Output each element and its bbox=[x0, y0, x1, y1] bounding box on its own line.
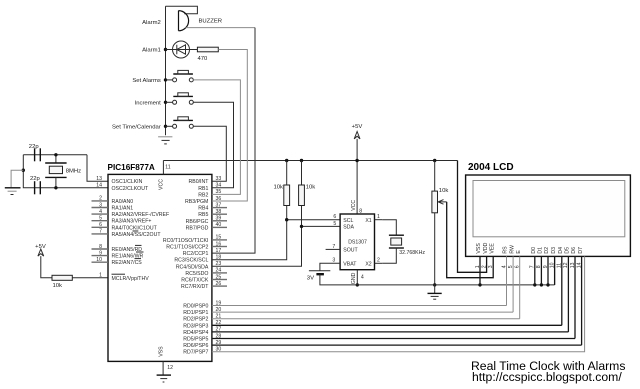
node SDA junction bbox=[300, 225, 303, 228]
svg-text:2: 2 bbox=[99, 196, 102, 202]
node VSS ground bbox=[478, 283, 481, 286]
svg-text:RC2/CCP1: RC2/CCP1 bbox=[183, 251, 209, 257]
svg-text:D1: D1 bbox=[538, 247, 544, 254]
svg-text:SOUT: SOUT bbox=[343, 248, 358, 254]
svg-text:+5V: +5V bbox=[352, 124, 363, 130]
ground (PIC VSS) bbox=[157, 374, 171, 376]
pin 38 RB5 bbox=[212, 213, 227, 215]
svg-text:3: 3 bbox=[99, 202, 102, 208]
svg-text:RB2: RB2 bbox=[198, 192, 208, 198]
pin 25 RC6/TX/CK bbox=[212, 279, 227, 281]
wire LED to RB3 bbox=[212, 50, 247, 202]
crystal X1 8MHz bbox=[55, 155, 57, 163]
svg-text:RA0/AN0: RA0/AN0 bbox=[112, 199, 134, 205]
svg-text:25: 25 bbox=[216, 274, 222, 280]
resistor R4 10k (SDA pull-up) bbox=[301, 161, 303, 186]
svg-text:40: 40 bbox=[216, 222, 222, 228]
svg-text:RC3/SCK/SCL: RC3/SCK/SCL bbox=[174, 258, 208, 264]
svg-text:RC0/T1OSO/T1CKI: RC0/T1OSO/T1CKI bbox=[163, 238, 209, 244]
svg-text:VBAT: VBAT bbox=[343, 262, 357, 268]
svg-text:16: 16 bbox=[216, 241, 222, 247]
svg-text:7: 7 bbox=[99, 229, 102, 235]
svg-text:32.768KHz: 32.768KHz bbox=[399, 250, 425, 256]
pin 16 RC1/T1OSI/CCP2 bbox=[212, 246, 227, 248]
svg-text:RD2/PSP2: RD2/PSP2 bbox=[183, 317, 208, 323]
svg-text:RD5/PSP5: RD5/PSP5 bbox=[183, 337, 208, 343]
svg-text:RC7/RX/DT: RC7/RX/DT bbox=[181, 284, 209, 290]
svg-text:7: 7 bbox=[332, 244, 335, 250]
wire VDD branch to LCD pin 2 bbox=[458, 161, 487, 273]
svg-text:VEE: VEE bbox=[489, 243, 495, 254]
svg-text:OSC1/CLKIN: OSC1/CLKIN bbox=[112, 179, 143, 185]
wire OSC top net (OSC1) bbox=[23, 154, 87, 156]
node D2 ground bbox=[546, 283, 549, 286]
svg-text:DS1307: DS1307 bbox=[348, 239, 367, 245]
ground (buttons) bbox=[158, 136, 172, 138]
svg-text:RD1/PSP1: RD1/PSP1 bbox=[183, 310, 208, 316]
ground (pot/LCD) bbox=[434, 285, 436, 293]
svg-text:8: 8 bbox=[359, 209, 362, 215]
svg-text:4: 4 bbox=[99, 209, 102, 215]
wire Set Alarms to PIC bbox=[193, 80, 240, 194]
wire SDA net bbox=[212, 226, 340, 266]
svg-text:22p: 22p bbox=[29, 144, 40, 150]
op-amp U1 PIC16F877A body bbox=[108, 174, 212, 361]
svg-text:SCL: SCL bbox=[343, 218, 353, 224]
node Alarm1 bbox=[164, 48, 167, 51]
svg-text:OSC2/CLKOUT: OSC2/CLKOUT bbox=[112, 186, 149, 192]
op-amp U2 DS1307 body bbox=[340, 214, 374, 270]
pin 24 RC5/SDO bbox=[212, 272, 227, 274]
crystal X2 32.768KHz bbox=[382, 220, 396, 236]
svg-text:RB5: RB5 bbox=[198, 212, 208, 218]
switch Set Time/Calendar bbox=[164, 125, 167, 128]
svg-text:RS: RS bbox=[503, 246, 509, 254]
svg-text:RB3/PGM: RB3/PGM bbox=[185, 199, 208, 205]
svg-text:Increment: Increment bbox=[135, 100, 162, 106]
wire Increment to PIC bbox=[193, 102, 233, 188]
switch Increment bbox=[164, 101, 167, 104]
svg-text:22p: 22p bbox=[30, 176, 41, 182]
pin 7 RA5/AN4/SS/C2OUT bbox=[92, 233, 109, 235]
led D1 bbox=[166, 49, 198, 51]
switch Set Alarms bbox=[164, 78, 167, 81]
op-amp LCD1 2004 LCD body bbox=[466, 175, 631, 256]
pin 5 RA3/AN3/VREF+ bbox=[92, 220, 109, 222]
overline CS bbox=[135, 258, 142, 260]
svg-text:26: 26 bbox=[216, 281, 222, 287]
node D1 ground bbox=[540, 283, 543, 286]
svg-text:http://ccspicc.blogspot.com/: http://ccspicc.blogspot.com/ bbox=[472, 370, 622, 384]
svg-text:8: 8 bbox=[99, 244, 102, 250]
svg-text:5: 5 bbox=[99, 216, 102, 222]
svg-text:RD3/PSP3: RD3/PSP3 bbox=[183, 323, 208, 329]
svg-text:D4: D4 bbox=[558, 247, 564, 254]
svg-text:15: 15 bbox=[216, 235, 222, 241]
resistor R2 470 bbox=[197, 47, 218, 52]
svg-text:RD6/PSP6: RD6/PSP6 bbox=[183, 343, 208, 349]
svg-text:5: 5 bbox=[333, 221, 336, 227]
svg-text:VSS: VSS bbox=[476, 243, 482, 254]
pin 8 RE0/AN5/RD bbox=[92, 248, 109, 250]
pin 1 X1 bbox=[375, 219, 383, 221]
ground (oscillator) bbox=[5, 187, 21, 189]
svg-text:RA1/AN1: RA1/AN1 bbox=[112, 206, 134, 212]
wire R1 to MCLR pin 1 bbox=[72, 277, 108, 279]
wire SCL net bbox=[212, 220, 340, 260]
overline WR bbox=[136, 251, 144, 253]
svg-text:RB0/INT: RB0/INT bbox=[189, 179, 210, 185]
wire ground net bbox=[357, 284, 554, 286]
svg-text:24: 24 bbox=[216, 268, 222, 274]
svg-text:RA4/T0CKI/C1OUT: RA4/T0CKI/C1OUT bbox=[112, 225, 158, 231]
svg-text:38: 38 bbox=[216, 209, 222, 215]
svg-text:10k: 10k bbox=[274, 185, 284, 191]
capacitor C2 22p bbox=[34, 181, 36, 194]
wire to ground tap bbox=[11, 170, 23, 187]
svg-text:RB1: RB1 bbox=[198, 186, 208, 192]
resistor RV1 10k potentiometer bbox=[434, 161, 436, 192]
svg-text:39: 39 bbox=[216, 216, 222, 222]
svg-text:Set Time/Calendar: Set Time/Calendar bbox=[112, 124, 161, 130]
wire OSC bottom net (OSC2) bbox=[23, 155, 108, 188]
svg-text:4: 4 bbox=[361, 274, 364, 280]
svg-text:6: 6 bbox=[99, 222, 102, 228]
svg-text:PIC16F877A: PIC16F877A bbox=[108, 163, 155, 172]
svg-text:RD0/PSP0: RD0/PSP0 bbox=[183, 304, 208, 310]
overline RD bbox=[135, 244, 142, 246]
svg-text:9: 9 bbox=[99, 250, 102, 256]
svg-text:3: 3 bbox=[332, 258, 335, 264]
node GND pin junction bbox=[356, 283, 359, 286]
wire +5V rail bbox=[163, 160, 457, 162]
svg-text:10: 10 bbox=[96, 257, 102, 263]
svg-text:12: 12 bbox=[167, 365, 173, 371]
pin 6 RA4/T0CKI/C1OUT bbox=[92, 226, 109, 228]
svg-text:D7: D7 bbox=[578, 247, 584, 254]
wire wiper to VEE bbox=[447, 202, 494, 278]
svg-text:E: E bbox=[516, 250, 522, 254]
svg-text:RC6/TX/CK: RC6/TX/CK bbox=[181, 278, 209, 284]
node pot ground bbox=[433, 283, 436, 286]
svg-text:X2: X2 bbox=[365, 262, 371, 268]
pin 37 RB4 bbox=[212, 207, 227, 209]
svg-text:RC4/SDI/SDA: RC4/SDI/SDA bbox=[176, 264, 209, 270]
pin 4 GND (DS1307) bbox=[356, 270, 358, 285]
svg-text:1: 1 bbox=[99, 273, 102, 279]
svg-text:X1: X1 bbox=[365, 218, 371, 224]
svg-text:SDA: SDA bbox=[343, 225, 354, 231]
wire buzzer to RC2 bbox=[186, 27, 255, 29]
svg-text:Set Alarms: Set Alarms bbox=[132, 78, 161, 84]
svg-text:470: 470 bbox=[198, 56, 209, 62]
svg-text:RB4: RB4 bbox=[198, 206, 208, 212]
svg-text:8MHz: 8MHz bbox=[66, 169, 81, 175]
pin 15 RC0/T1OSO/T1CKI bbox=[212, 239, 227, 241]
svg-text:VDD: VDD bbox=[483, 242, 489, 253]
pin 2 RA0/AN0 bbox=[92, 200, 109, 202]
svg-text:2: 2 bbox=[377, 258, 380, 264]
svg-text:D5: D5 bbox=[565, 247, 571, 254]
node SCL junction bbox=[285, 218, 288, 221]
capacitor C1 22p bbox=[34, 148, 36, 161]
node D0 ground bbox=[533, 283, 536, 286]
svg-text:RE2/AN7/CS: RE2/AN7/CS bbox=[112, 260, 143, 266]
svg-text:D6: D6 bbox=[571, 247, 577, 254]
svg-text:RB7/PGD: RB7/PGD bbox=[186, 225, 209, 231]
svg-text:VSS: VSS bbox=[158, 346, 164, 357]
svg-text:10k: 10k bbox=[53, 283, 63, 289]
svg-text:VCC: VCC bbox=[159, 179, 165, 190]
buzzer BZ1 bbox=[166, 6, 198, 14]
svg-text:10k: 10k bbox=[306, 185, 316, 191]
node rail-DS1307 bbox=[355, 159, 358, 162]
svg-text:D0: D0 bbox=[531, 247, 537, 254]
resistor R3 10k (SCL pull-up) bbox=[286, 161, 288, 186]
svg-text:BUZZER: BUZZER bbox=[199, 19, 223, 25]
wire common ground vertical bbox=[165, 6, 167, 131]
resistor R1 10k (MCLR pull-up) bbox=[52, 275, 72, 280]
pin 2 X2 bbox=[375, 262, 383, 264]
overline SS bbox=[133, 230, 139, 232]
node crystal bottom bbox=[54, 186, 57, 189]
pin 4 RA2/AN2/VREF-/CVREF bbox=[92, 213, 109, 215]
pin 9 RE1/AN6/WR bbox=[92, 255, 109, 257]
pin 39 RB6/PGC bbox=[212, 220, 227, 222]
node osc-left-gnd-tap bbox=[22, 169, 25, 172]
svg-text:RA2/AN2/VREF-/CVREF: RA2/AN2/VREF-/CVREF bbox=[112, 212, 170, 218]
svg-text:VCC: VCC bbox=[351, 200, 357, 211]
svg-text:37: 37 bbox=[216, 202, 222, 208]
svg-text:RC5/SDO: RC5/SDO bbox=[185, 271, 208, 277]
svg-text:D3: D3 bbox=[551, 247, 557, 254]
svg-text:RB6/PGC: RB6/PGC bbox=[186, 219, 209, 225]
svg-text:6: 6 bbox=[333, 214, 336, 220]
svg-text:RA3/AN3/VREF+: RA3/AN3/VREF+ bbox=[112, 219, 152, 225]
pin 11 VDD bbox=[162, 161, 164, 175]
svg-text:RD4/PSP4: RD4/PSP4 bbox=[183, 330, 208, 336]
pin 3 RA1/AN1 bbox=[92, 207, 109, 209]
svg-text:1: 1 bbox=[377, 214, 380, 220]
svg-text:2: 2 bbox=[481, 265, 487, 268]
svg-text:10k: 10k bbox=[439, 188, 449, 194]
node rail-R4 bbox=[300, 159, 303, 162]
svg-text:GND: GND bbox=[351, 272, 357, 284]
svg-text:14: 14 bbox=[96, 183, 102, 189]
svg-text:RA5/AN4/SS/C2OUT: RA5/AN4/SS/C2OUT bbox=[112, 232, 162, 238]
svg-text:11: 11 bbox=[165, 165, 170, 171]
pin 26 RC7/RX/DT bbox=[212, 285, 227, 287]
wire +5V to R 10k bbox=[41, 256, 52, 278]
wire Set Time/Calendar to PIC bbox=[193, 126, 226, 181]
wire battery to ground bbox=[320, 274, 357, 285]
svg-text:RC1/T1OSI/CCP2: RC1/T1OSI/CCP2 bbox=[166, 245, 208, 251]
battery BT1 3V bbox=[320, 263, 340, 271]
node crystal top bbox=[54, 153, 57, 156]
pin 10 RE2/AN7/CS bbox=[92, 261, 109, 263]
svg-text:2004 LCD: 2004 LCD bbox=[468, 162, 514, 173]
pin 12 VSS bbox=[162, 361, 164, 374]
overline MCLR bbox=[112, 273, 126, 275]
svg-text:13: 13 bbox=[96, 176, 102, 182]
wire RD7 run bbox=[212, 256, 585, 351]
svg-text:RW: RW bbox=[509, 245, 515, 254]
svg-text:D2: D2 bbox=[544, 247, 550, 254]
svg-text:Alarm2: Alarm2 bbox=[142, 20, 161, 26]
pin 7 SOUT bbox=[326, 248, 341, 250]
node rail-R3 bbox=[285, 159, 288, 162]
svg-text:3: 3 bbox=[488, 265, 494, 268]
svg-text:Alarm1: Alarm1 bbox=[142, 48, 161, 54]
svg-text:3V: 3V bbox=[307, 276, 314, 282]
node rail-pot bbox=[433, 159, 436, 162]
svg-text:MCLR/Vpp/THV: MCLR/Vpp/THV bbox=[112, 276, 150, 282]
svg-text:RD7/PSP7: RD7/PSP7 bbox=[183, 350, 208, 356]
pin 40 RB7/PGD bbox=[212, 226, 227, 228]
